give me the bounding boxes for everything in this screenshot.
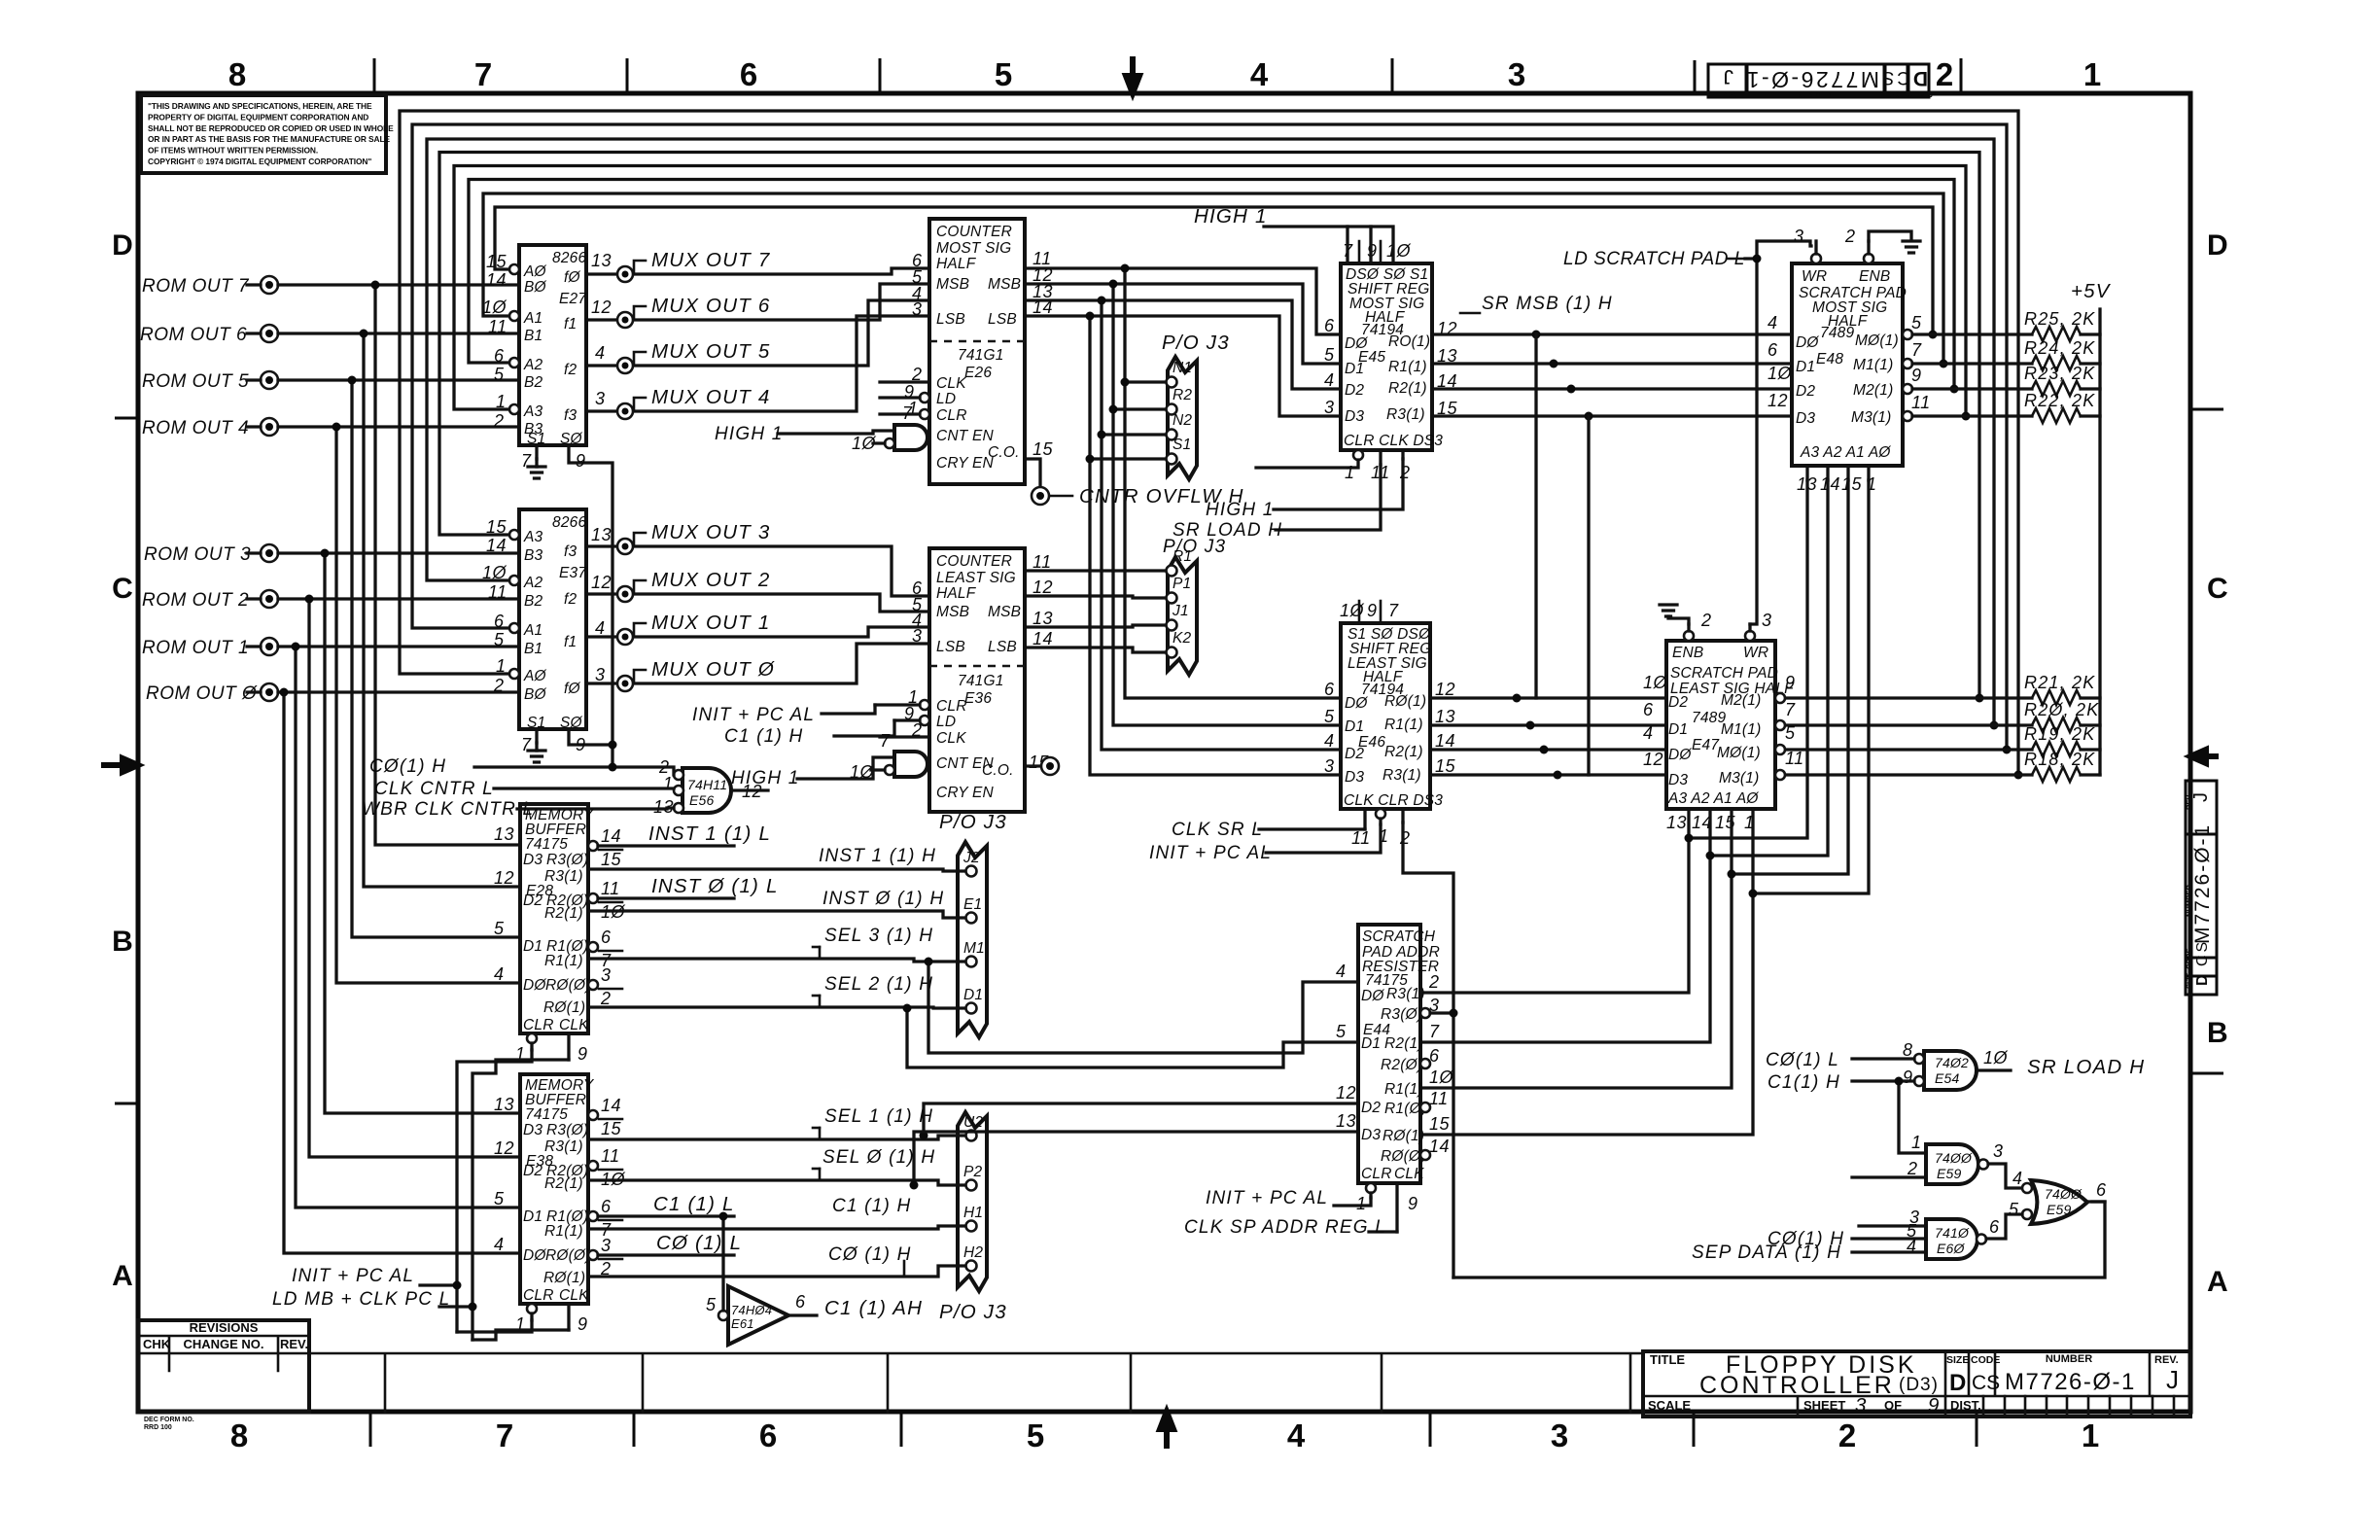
pin J2 connector J3	[966, 866, 977, 877]
wire C0 (1) H to connector H2	[588, 1266, 965, 1277]
svg-text:R2(Ø): R2(Ø)	[1381, 1057, 1422, 1073]
svg-text:AØ: AØ	[523, 668, 547, 684]
svg-text:REV.: REV.	[280, 1337, 308, 1351]
svg-text:f2: f2	[564, 362, 577, 378]
svg-text:74175: 74175	[525, 836, 568, 853]
wire MUX OUT 4 net	[586, 316, 929, 411]
svg-text:N1: N1	[1172, 360, 1192, 376]
svg-text:D: D	[1910, 67, 1928, 89]
zone tick marks right border	[2190, 409, 2223, 1073]
junction	[332, 423, 341, 432]
svg-text:6: 6	[1324, 316, 1335, 335]
wire E38 clock chain	[472, 1330, 569, 1340]
svg-text:P/O J3: P/O J3	[1162, 332, 1230, 354]
svg-text:MUX OUT 5: MUX OUT 5	[651, 340, 770, 363]
wire counter E36 output to connector J3	[1025, 596, 1164, 598]
pin E1 connector J3	[966, 913, 977, 924]
junction	[1540, 746, 1549, 754]
svg-text:12: 12	[494, 868, 514, 888]
svg-text:MUX OUT 7: MUX OUT 7	[651, 249, 771, 271]
svg-text:ROM OUT Ø: ROM OUT Ø	[146, 683, 258, 704]
node CNTR OVFLW H	[1032, 487, 1049, 505]
svg-text:CLR: CLR	[936, 407, 967, 424]
svg-text:CLK: CLK	[936, 375, 966, 392]
svg-text:3: 3	[1855, 1394, 1868, 1417]
svg-text:CLK: CLK	[1394, 1166, 1424, 1182]
wire top bus line 7	[412, 124, 2007, 750]
svg-text:SIZE: SIZE	[2185, 972, 2193, 989]
svg-text:A1: A1	[523, 310, 542, 327]
svg-text:1Ø: 1Ø	[1429, 1067, 1454, 1087]
IC E28 bottom pins CLR CLK	[527, 1033, 537, 1043]
svg-text:CHANGE NO.: CHANGE NO.	[183, 1337, 263, 1351]
svg-text:1Ø: 1Ø	[1767, 364, 1793, 383]
pin bubbles E26 LD CLR	[920, 393, 929, 402]
IC E26 74161 counter most-significant half	[929, 219, 1025, 484]
connector P/O J3 pins N1 R2 N2 S1	[1162, 332, 1230, 479]
pin R1 connector J3	[1167, 566, 1177, 577]
svg-text:7: 7	[880, 731, 891, 751]
svg-text:OF: OF	[1884, 1398, 1902, 1413]
svg-text:15: 15	[486, 517, 507, 537]
svg-text:RRD 100: RRD 100	[144, 1424, 172, 1431]
svg-text:CLR: CLR	[523, 1287, 554, 1304]
svg-text:D2: D2	[1796, 383, 1815, 400]
svg-text:D2: D2	[1345, 382, 1364, 399]
svg-text:2: 2	[493, 411, 505, 431]
svg-text:CLK: CLK	[559, 1017, 589, 1033]
wire SEP DATA (1) H to E60 pin 4	[1852, 1250, 1926, 1253]
wire top bus line 8	[400, 111, 2018, 775]
IC E36 74161 counter least-significant half	[929, 548, 1025, 812]
label leader	[634, 533, 646, 545]
label leader	[634, 623, 646, 636]
svg-text:LSB: LSB	[988, 639, 1017, 655]
svg-text:PROPERTY OF DIGITAL EQUIPME: PROPERTY OF DIGITAL EQUIPMENT CORPORATIO…	[148, 112, 368, 122]
svg-text:5: 5	[1336, 1022, 1347, 1041]
svg-text:5: 5	[1324, 707, 1335, 726]
svg-text:14: 14	[1435, 731, 1455, 751]
svg-text:R1(1): R1(1)	[1384, 717, 1423, 733]
svg-text:4: 4	[595, 618, 606, 638]
svg-text:7: 7	[1388, 601, 1399, 620]
svg-text:CLR: CLR	[523, 1017, 554, 1033]
svg-text:M7726-Ø-1: M7726-Ø-1	[2191, 823, 2214, 944]
svg-text:K2: K2	[1172, 630, 1192, 647]
node E36 carry out	[1025, 764, 1040, 767]
svg-text:D1: D1	[523, 1208, 542, 1225]
svg-text:B: B	[112, 926, 133, 958]
svg-text:ROM OUT 1: ROM OUT 1	[142, 638, 249, 658]
svg-text:CS: CS	[1972, 1372, 2000, 1394]
node	[617, 676, 633, 691]
wire ROM OUT bit to memory buffer D input 1	[364, 333, 520, 887]
wire C0 (1) L to E54 pin 8	[1852, 1057, 1914, 1060]
pin J1 connector J3	[1167, 620, 1177, 631]
wire E54 output SR LOAD H	[1977, 1068, 2011, 1071]
svg-text:RO(1): RO(1)	[1388, 333, 1430, 350]
ground at E27 pin 7	[528, 467, 545, 478]
node ROM OUT 5	[261, 371, 278, 389]
svg-text:9: 9	[1367, 601, 1378, 620]
svg-text:7: 7	[1785, 700, 1796, 719]
junction bus line 2 at resistor row	[1940, 360, 1948, 368]
svg-text:R19, 2K: R19, 2K	[2024, 724, 2095, 744]
IC E37 bottom pins 7 9	[535, 729, 538, 743]
resistor R21 2K	[1780, 696, 2032, 699]
resistor R23 2K	[1912, 387, 2032, 390]
IC E45 74194 shift register most-significant half	[1341, 263, 1443, 450]
wire E44 input D0 from SEL 3 branch	[928, 962, 1358, 1053]
wire top bus line 1	[495, 207, 1933, 334]
svg-text:LD SCRATCH PAD L: LD SCRATCH PAD L	[1563, 249, 1745, 269]
svg-text:D: D	[2207, 229, 2228, 262]
svg-text:E59: E59	[1937, 1166, 1962, 1181]
svg-text:SØ: SØ	[560, 715, 583, 731]
svg-text:SEP DATA (1) H: SEP DATA (1) H	[1692, 1242, 1841, 1263]
wire MUX OUT 7 net	[586, 268, 929, 274]
junction	[1121, 378, 1130, 387]
wire shift chain bit 3	[1587, 416, 1590, 775]
wire E47 address pin stub	[1751, 809, 1754, 893]
svg-text:1: 1	[2083, 56, 2101, 92]
NOR gate E54 7402	[1924, 1051, 1977, 1090]
resistor R24 2K	[1912, 362, 2032, 365]
svg-text:SEL 3 (1) H: SEL 3 (1) H	[824, 926, 933, 946]
svg-text:741G1: 741G1	[958, 347, 1004, 364]
wire C0 (1) L stub	[598, 1253, 734, 1256]
wire ROM OUT 7 to mux B input	[278, 283, 519, 286]
svg-text:A2: A2	[523, 357, 543, 373]
wire tap to connector J3 and shift register E46	[1125, 268, 1341, 698]
wire E60 pin 3 input	[1859, 1224, 1926, 1227]
svg-text:D2: D2	[1668, 694, 1688, 711]
svg-text:9: 9	[576, 451, 586, 471]
svg-text:13: 13	[1032, 609, 1053, 628]
svg-text:RØ(1): RØ(1)	[1382, 1128, 1424, 1144]
svg-text:J: J	[2190, 789, 2212, 802]
svg-text:CLK: CLK	[559, 1287, 589, 1304]
svg-text:REV.: REV.	[1722, 89, 1739, 98]
svg-text:OF ITEMS WITHOUT WRITTEN PERMI: OF ITEMS WITHOUT WRITTEN PERMISSION.	[148, 146, 318, 156]
svg-text:CLK CLR DS3: CLK CLR DS3	[1344, 792, 1443, 809]
svg-text:A: A	[112, 1260, 133, 1292]
svg-text:A3 A2 A1 AØ: A3 A2 A1 AØ	[1800, 444, 1891, 461]
svg-text:9: 9	[577, 1044, 588, 1064]
svg-text:CODE: CODE	[1889, 89, 1912, 98]
wire top bus line 5	[439, 153, 1979, 699]
resistor R18 2K	[1780, 773, 2032, 776]
svg-text:D1: D1	[1345, 718, 1364, 735]
svg-text:1: 1	[1911, 1133, 1922, 1152]
svg-text:74ØØ: 74ØØ	[1935, 1150, 1973, 1166]
svg-text:SHALL NOT BE REPRODUCED OR COP: SHALL NOT BE REPRODUCED OR COPIED OR USE…	[148, 123, 394, 133]
svg-text:R1: R1	[1172, 548, 1192, 565]
svg-text:f3: f3	[564, 543, 577, 560]
svg-text:CS: CS	[2194, 939, 2211, 966]
svg-text:R2(1): R2(1)	[544, 1175, 583, 1192]
svg-text:9: 9	[1928, 1394, 1941, 1417]
wire shift register E45 output R3(1) to scratch pad E48	[1432, 414, 1792, 417]
svg-text:1Ø: 1Ø	[1340, 601, 1365, 620]
svg-text:6: 6	[494, 346, 505, 366]
IC E38 bottom pins CLR CLK	[527, 1304, 537, 1313]
svg-text:R2: R2	[1172, 387, 1192, 403]
label leader MUX OUT 6	[634, 306, 646, 319]
svg-text:15: 15	[1429, 1114, 1451, 1134]
junction	[1550, 360, 1558, 368]
svg-text:D3: D3	[1361, 1127, 1381, 1143]
svg-text:MØ(1): MØ(1)	[1855, 332, 1899, 349]
IC E48 7489 scratch pad most-significant half	[1792, 263, 1907, 466]
svg-text:11: 11	[601, 1146, 620, 1166]
svg-text:12: 12	[494, 1138, 514, 1158]
junction	[1098, 431, 1106, 439]
node ROM OUT 4	[261, 418, 278, 436]
svg-text:M2(1): M2(1)	[1853, 382, 1893, 399]
svg-text:SHEET: SHEET	[1803, 1398, 1845, 1413]
svg-text:P1: P1	[1172, 576, 1191, 592]
junction C0 (1) H to E37 S0	[609, 763, 617, 772]
svg-text:+5V: +5V	[2071, 280, 2112, 302]
svg-text:SR LOAD H: SR LOAD H	[1172, 520, 1282, 541]
wire ROM OUT bit to memory buffer D input 5	[309, 599, 520, 1157]
wire E26 CLK LD CLR stubs	[880, 382, 929, 414]
svg-text:14: 14	[1032, 629, 1053, 648]
svg-text:CLR CLK DS3: CLR CLK DS3	[1344, 433, 1443, 449]
wire C1 (1) L stub	[598, 1214, 734, 1217]
svg-text:HIGH 1: HIGH 1	[715, 424, 784, 444]
pin bubbles E44 complement outputs	[1420, 1008, 1430, 1018]
svg-text:WR: WR	[1802, 268, 1827, 285]
wire SEL 1 (1) H to connector U2	[588, 1136, 965, 1139]
svg-text:B3: B3	[524, 547, 543, 564]
svg-text:E56: E56	[689, 792, 715, 808]
svg-text:NUMBER: NUMBER	[1799, 89, 1833, 98]
svg-text:74ØØ: 74ØØ	[2045, 1186, 2082, 1202]
IC E44 74175 scratch pad address register	[1358, 925, 1440, 1183]
node ROM OUT 6	[261, 325, 278, 342]
svg-text:R1(1): R1(1)	[1384, 1081, 1423, 1098]
svg-text:11: 11	[601, 879, 620, 898]
inverted drawing-number stamp top edge	[1708, 64, 1933, 98]
svg-text:11: 11	[1032, 552, 1052, 572]
svg-text:15: 15	[1841, 474, 1863, 494]
svg-text:DØ: DØ	[1345, 695, 1368, 712]
svg-text:LD MB + CLK PC L: LD MB + CLK PC L	[272, 1289, 450, 1310]
wire ROM OUT bit to memory buffer D input 3	[336, 427, 520, 983]
junction bus line 6 at resistor row	[1990, 721, 1999, 730]
connector P/O J3 pins J2 E1 M1 D1	[939, 811, 1007, 1037]
svg-text:4: 4	[1767, 313, 1778, 332]
wire shift register E45 output R2(1) to scratch pad E48	[1432, 387, 1792, 390]
svg-text:2: 2	[1700, 611, 1712, 630]
junction	[371, 281, 380, 290]
svg-text:HALF: HALF	[936, 585, 977, 602]
svg-text:LSB: LSB	[988, 311, 1017, 328]
svg-text:fØ: fØ	[564, 681, 581, 697]
svg-text:D2: D2	[1361, 1100, 1381, 1116]
AND gate at E36 CNT EN	[894, 752, 927, 777]
wire E36 CLR LD CLK stubs	[875, 705, 929, 737]
svg-text:D3: D3	[1345, 408, 1364, 425]
svg-text:INST 1 (1) L: INST 1 (1) L	[648, 822, 771, 845]
junction	[1098, 297, 1106, 305]
svg-text:9: 9	[577, 1314, 588, 1334]
pin S1 connector J3	[1167, 454, 1177, 465]
junction	[321, 549, 330, 558]
svg-text:14: 14	[486, 536, 507, 555]
resistor R19 2K	[1780, 748, 2032, 751]
svg-text:f2: f2	[564, 591, 577, 608]
svg-text:MSB: MSB	[936, 276, 969, 293]
pin bubbles E27 A inputs	[509, 264, 519, 274]
wire counter E36 output to connector J3	[1025, 625, 1164, 627]
wire E44 input D1 from SEL 2 branch	[907, 1008, 1358, 1067]
junction	[360, 330, 368, 338]
wire ROM OUT 0 to mux B input	[278, 690, 519, 693]
svg-text:2: 2	[493, 676, 505, 695]
flow arrow left border	[101, 758, 138, 772]
svg-text:R2(1): R2(1)	[1388, 380, 1427, 397]
NAND gate E60 7410	[1926, 1219, 1977, 1259]
svg-text:N2: N2	[1172, 412, 1192, 429]
svg-text:11: 11	[1785, 749, 1804, 768]
wire shift register E45 output R1(1) to scratch pad E48	[1432, 362, 1792, 365]
svg-text:MØ(1): MØ(1)	[1717, 745, 1761, 761]
svg-text:12: 12	[1032, 577, 1053, 597]
wire CLK SR L to E46 CLK	[1259, 827, 1365, 830]
pin K2 connector J3	[1167, 647, 1177, 658]
wire E44 input D2 from SEL 1 branch	[924, 1103, 1358, 1136]
wire ROM OUT bit to memory buffer D input 2	[352, 380, 520, 937]
svg-text:SEL 2 (1) H: SEL 2 (1) H	[824, 974, 933, 995]
svg-text:ROM OUT 6: ROM OUT 6	[140, 325, 247, 345]
wire shift register E45 output R0(1) to scratch pad E48	[1432, 332, 1792, 335]
wire inverter output C1 (1) AH	[788, 1313, 817, 1316]
svg-text:R24, 2K: R24, 2K	[2024, 338, 2095, 358]
rotated drawing-number stamp right edge	[2185, 781, 2217, 995]
svg-text:B2: B2	[524, 374, 543, 391]
svg-text:7: 7	[474, 56, 492, 92]
svg-text:2: 2	[600, 989, 612, 1008]
svg-text:CODE: CODE	[2185, 948, 2193, 969]
svg-text:7: 7	[1429, 1022, 1440, 1041]
wire CLK SP ADDR REG L to E44 CLK	[1369, 1230, 1397, 1233]
svg-text:2: 2	[1907, 1159, 1918, 1178]
svg-text:6: 6	[601, 927, 612, 947]
IC E28 74175 memory buffer	[520, 804, 595, 1033]
svg-text:6: 6	[601, 1197, 612, 1216]
svg-text:SEL 1 (1) H: SEL 1 (1) H	[824, 1106, 933, 1127]
svg-text:B1: B1	[524, 328, 542, 344]
svg-text:4: 4	[494, 1235, 505, 1254]
wire feedback bottom run	[1453, 1202, 2105, 1277]
svg-text:D2: D2	[523, 892, 542, 909]
svg-text:AØ: AØ	[523, 263, 547, 280]
svg-text:6: 6	[2096, 1180, 2107, 1200]
svg-text:RØ(Ø): RØ(Ø)	[545, 977, 591, 994]
svg-text:13: 13	[591, 525, 612, 544]
junction	[1532, 331, 1541, 339]
wire MUX OUT 5 net	[586, 300, 929, 366]
svg-text:2: 2	[1838, 1417, 1856, 1453]
svg-text:741Ø: 741Ø	[1935, 1225, 1970, 1241]
wire HIGH 1 to E45 select pins	[1264, 227, 1393, 263]
zone tick marks bottom border	[370, 1412, 1977, 1447]
svg-text:74H11: 74H11	[687, 777, 727, 792]
svg-text:INST Ø (1) H: INST Ø (1) H	[822, 889, 944, 909]
svg-text:M2(1): M2(1)	[1721, 692, 1761, 709]
pin N2 connector J3	[1167, 430, 1177, 440]
svg-text:4: 4	[1324, 731, 1335, 751]
svg-text:R3(1): R3(1)	[1386, 986, 1425, 1002]
svg-text:E37: E37	[559, 565, 587, 581]
connector P/O J3 pins R1 P1 J1 K2	[1163, 537, 1226, 675]
svg-text:S1: S1	[1172, 437, 1191, 453]
svg-text:E26: E26	[964, 365, 992, 381]
svg-text:R1(1): R1(1)	[544, 1223, 583, 1240]
svg-text:D1: D1	[963, 987, 983, 1003]
svg-text:3: 3	[912, 626, 923, 646]
zone tick marks left border	[115, 418, 138, 1103]
wire E44 R3(0) feedback to gate E59	[1430, 1011, 1453, 1014]
svg-text:15: 15	[601, 1119, 622, 1138]
svg-text:f3: f3	[564, 407, 577, 424]
svg-text:1: 1	[1345, 463, 1355, 482]
svg-text:RØ(Ø): RØ(Ø)	[1381, 1148, 1426, 1165]
svg-text:8: 8	[228, 56, 246, 92]
wire E56 output	[731, 788, 768, 791]
svg-text:R22, 2K: R22, 2K	[2024, 391, 2095, 410]
svg-text:4: 4	[595, 343, 606, 363]
svg-text:HIGH 1: HIGH 1	[1206, 500, 1275, 520]
wire INST 0 (1) H to connector E1	[588, 911, 965, 918]
svg-text:A: A	[2207, 1266, 2228, 1298]
junction bus line 5 at resistor row	[1976, 694, 1984, 703]
wire stub to connector pin	[1113, 407, 1164, 410]
svg-text:1Ø: 1Ø	[482, 563, 507, 582]
svg-text:13: 13	[494, 824, 514, 844]
svg-text:13: 13	[1666, 813, 1687, 832]
svg-text:11: 11	[1911, 393, 1931, 412]
svg-text:8266: 8266	[552, 514, 586, 531]
svg-text:LD: LD	[936, 714, 956, 730]
svg-text:M1: M1	[963, 940, 985, 957]
svg-text:74HØ4: 74HØ4	[731, 1303, 772, 1317]
wire top bus line 2	[483, 193, 1943, 364]
pin D1 connector J3	[966, 1003, 977, 1014]
wire shift register E46 output R0(1) to scratch pad E47	[1430, 696, 1666, 699]
junction	[1685, 834, 1694, 843]
wire SEL 3 (1) H to connector M1	[588, 959, 965, 962]
ground at E47 ENB	[1668, 616, 1689, 624]
wire tap to connector J3 and shift register E46	[1090, 316, 1341, 775]
svg-text:A1: A1	[523, 622, 542, 639]
wire INIT + PC AL to E44 CLR	[1334, 1198, 1371, 1206]
pin bubbles E37 A inputs	[509, 530, 519, 540]
svg-text:REVISIONS: REVISIONS	[190, 1320, 259, 1335]
svg-text:5: 5	[1324, 345, 1335, 365]
wire ROM OUT 6 to mux B input	[278, 332, 519, 334]
wire LD SCRATCH PAD L net	[1745, 241, 1811, 259]
svg-text:6: 6	[795, 1292, 806, 1312]
svg-text:12: 12	[591, 297, 612, 317]
svg-text:TITLE: TITLE	[1650, 1352, 1685, 1367]
wire LD MB + CLK PC L input	[439, 1305, 472, 1308]
node MUX OUT 6	[617, 312, 633, 328]
svg-text:B2: B2	[524, 593, 543, 610]
